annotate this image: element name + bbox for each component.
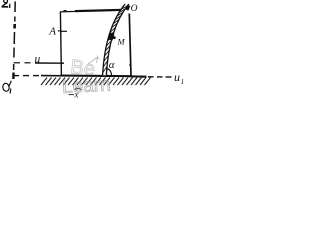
svg-text:M: M xyxy=(117,37,126,47)
watermark line 2 "Learn" xyxy=(62,74,112,98)
tick on right edge xyxy=(129,64,131,66)
label O1 (bottom-left origin glyph) xyxy=(2,81,11,94)
u-level dash-dot line xyxy=(14,62,31,64)
svg-text:u: u xyxy=(35,54,41,66)
rod hatching xyxy=(103,6,127,72)
background xyxy=(0,0,184,100)
rod band (white fill to cover crossed lines) xyxy=(103,4,129,75)
svg-text:u: u xyxy=(174,70,180,84)
ground hatching xyxy=(41,78,151,86)
rod top dark blob xyxy=(127,5,129,10)
angle alpha arc xyxy=(106,68,111,75)
svg-text:O: O xyxy=(131,4,138,14)
ground line xyxy=(41,76,147,77)
bottom x-bar label xyxy=(69,94,75,96)
velocity arrow u xyxy=(35,62,64,64)
ground line dashed extension right xyxy=(148,76,172,78)
point M (dark segment on rod) xyxy=(110,33,112,40)
square: top edge xyxy=(60,10,76,13)
svg-text:α: α xyxy=(109,59,115,71)
square: bottom edge xyxy=(61,74,131,77)
ground line dashed extension left xyxy=(13,75,40,77)
svg-text:1: 1 xyxy=(181,78,184,86)
vertical dashed axis xyxy=(13,2,15,80)
square: left edge xyxy=(60,11,61,75)
tick for point A on left edge xyxy=(61,30,67,32)
svg-text:A: A xyxy=(48,26,56,38)
faint watermark strokes near rod xyxy=(88,56,100,65)
square: right edge xyxy=(129,14,131,76)
svg-text:x: x xyxy=(74,90,79,100)
small bump on top edge xyxy=(64,10,67,12)
label B1 (top-left glyph, 2-like) xyxy=(2,0,10,8)
watermark line 1 "Be" xyxy=(69,56,96,80)
rod edge lines xyxy=(103,4,126,75)
